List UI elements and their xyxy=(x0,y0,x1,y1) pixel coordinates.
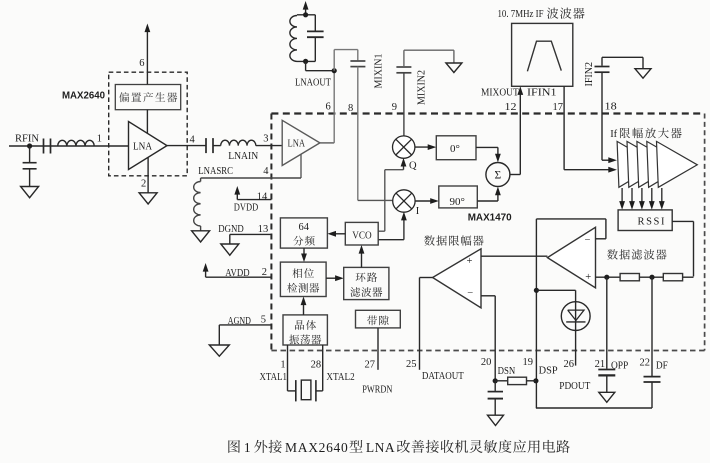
svg-text:LNA: LNA xyxy=(288,138,306,149)
svg-text:27: 27 xyxy=(365,359,376,370)
svg-text:2: 2 xyxy=(262,267,267,278)
svg-text:64: 64 xyxy=(299,222,310,233)
svg-text:26: 26 xyxy=(564,359,575,370)
svg-text:+: + xyxy=(467,256,473,267)
svg-text:12: 12 xyxy=(505,102,517,113)
svg-text:RSSI: RSSI xyxy=(638,216,667,227)
svg-text:2: 2 xyxy=(141,178,146,189)
svg-text:5: 5 xyxy=(261,314,266,325)
svg-text:DGND: DGND xyxy=(218,223,244,235)
svg-text:MIXIN1: MIXIN1 xyxy=(374,54,385,89)
svg-text:MAX2640: MAX2640 xyxy=(285,440,348,455)
svg-text:VCO: VCO xyxy=(352,230,372,241)
svg-text:1: 1 xyxy=(280,359,285,370)
svg-text:13: 13 xyxy=(258,224,269,235)
svg-text:DSN: DSN xyxy=(498,366,516,377)
svg-text:PWRDN: PWRDN xyxy=(362,385,392,396)
svg-text:1: 1 xyxy=(244,440,251,455)
svg-text:MAX1470: MAX1470 xyxy=(468,212,512,223)
svg-text:+: + xyxy=(585,272,591,283)
svg-text:AVDD: AVDD xyxy=(225,267,249,279)
svg-text:3: 3 xyxy=(263,133,268,144)
svg-text:Q: Q xyxy=(409,161,417,172)
svg-text:9: 9 xyxy=(392,102,397,113)
svg-text:Σ: Σ xyxy=(495,170,502,182)
svg-text:6: 6 xyxy=(139,58,144,69)
svg-text:28: 28 xyxy=(311,359,322,370)
svg-text:21: 21 xyxy=(595,359,606,370)
svg-text:1: 1 xyxy=(97,134,102,145)
svg-text:If: If xyxy=(610,129,617,140)
svg-text:I: I xyxy=(416,206,420,217)
svg-text:17: 17 xyxy=(553,102,564,113)
svg-text:LNAIN: LNAIN xyxy=(228,150,258,162)
svg-text:4: 4 xyxy=(263,166,269,177)
svg-text:DATAOUT: DATAOUT xyxy=(422,371,464,382)
svg-text:MIXOUT: MIXOUT xyxy=(481,87,519,98)
svg-text:0°: 0° xyxy=(450,143,460,155)
svg-text:IFIN1: IFIN1 xyxy=(527,87,557,98)
svg-text:22: 22 xyxy=(639,358,650,369)
svg-text:LNA: LNA xyxy=(133,141,153,152)
svg-text:OPP: OPP xyxy=(611,360,628,371)
svg-text:6: 6 xyxy=(326,102,331,113)
svg-text:20: 20 xyxy=(481,357,492,368)
svg-text:IFIN2: IFIN2 xyxy=(584,62,595,86)
svg-text:−: − xyxy=(585,235,591,246)
svg-text:DSP: DSP xyxy=(539,365,558,376)
svg-text:MIXIN2: MIXIN2 xyxy=(417,70,428,105)
svg-text:AGND: AGND xyxy=(228,315,251,327)
svg-text:XTAL1: XTAL1 xyxy=(260,372,288,383)
svg-text:RFIN: RFIN xyxy=(15,132,39,144)
svg-text:PDOUT: PDOUT xyxy=(559,381,591,392)
svg-text:25: 25 xyxy=(406,359,417,370)
svg-text:19: 19 xyxy=(522,357,533,368)
svg-text:DF: DF xyxy=(656,360,668,371)
svg-text:XTAL2: XTAL2 xyxy=(326,372,354,383)
svg-text:90°: 90° xyxy=(449,196,464,208)
svg-text:−: − xyxy=(467,288,473,299)
svg-text:14: 14 xyxy=(257,191,268,202)
svg-text:LNAOUT: LNAOUT xyxy=(295,77,331,89)
svg-text:18: 18 xyxy=(605,102,617,113)
svg-text:DVDD: DVDD xyxy=(234,201,258,213)
svg-text:10. 7MHz IF: 10. 7MHz IF xyxy=(498,8,544,20)
svg-text:MAX2640: MAX2640 xyxy=(62,90,105,101)
svg-text:8: 8 xyxy=(348,103,353,114)
svg-text:4: 4 xyxy=(190,134,196,145)
svg-text:LNA: LNA xyxy=(366,440,395,455)
svg-text:LNASRC: LNASRC xyxy=(198,165,233,177)
